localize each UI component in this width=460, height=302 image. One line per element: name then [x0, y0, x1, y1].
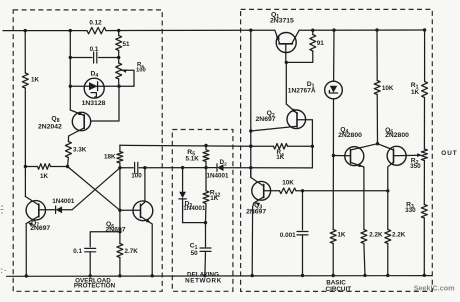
svg-text:91: 91	[317, 40, 325, 47]
transistor Q1 2N3715	[276, 33, 296, 53]
resistor 3.3K	[67, 136, 69, 142]
svg-text:1K: 1K	[31, 77, 40, 84]
wire sense column left	[69, 31, 71, 110]
overload protection box	[13, 10, 162, 291]
wire Q1 collector rail	[299, 29, 424, 31]
wire top rail input	[3, 30, 87, 32]
svg-text:2N697: 2N697	[106, 226, 126, 233]
resistor 2.2K right	[387, 191, 389, 230]
svg-text:PROTECTION: PROTECTION	[74, 282, 116, 289]
node X	[118, 166, 121, 169]
svg-text:2N697: 2N697	[256, 116, 276, 123]
wire left rail upper	[24, 31, 26, 73]
svg-text:100: 100	[136, 68, 147, 74]
wire 167 rail left	[145, 167, 217, 169]
svg-text:CIRCUIT: CIRCUIT	[326, 286, 352, 293]
scan specks	[1, 206, 7, 273]
svg-text:1N4001: 1N4001	[206, 173, 229, 180]
potentiometer R2 350	[421, 149, 427, 161]
svg-text:2.2K: 2.2K	[369, 232, 383, 239]
svg-text:18K: 18K	[104, 154, 116, 161]
transistor Q6	[133, 201, 153, 221]
resistor 1K left	[22, 73, 28, 88]
wire Q1 base to Q2 collector	[285, 62, 287, 104]
node Q6 collector	[143, 166, 146, 169]
capacitor 0.1 top	[70, 57, 92, 59]
wire left rail to node	[24, 88, 26, 197]
svg-text:2.2K: 2.2K	[392, 232, 406, 239]
ground rail	[7, 275, 432, 278]
resistor R12 1K	[205, 168, 207, 191]
svg-text:2N2800: 2N2800	[385, 132, 409, 139]
wire cross diagonal B to Q7 base	[72, 168, 120, 210]
svg-text:0.001: 0.001	[280, 232, 296, 239]
svg-text:0.1: 0.1	[73, 248, 82, 255]
resistor R5 5.1K	[205, 146, 207, 150]
wire diode to cross diagonal	[62, 209, 72, 211]
transistor Q7	[26, 201, 45, 220]
capacitor 0.001	[302, 191, 304, 230]
svg-text:2N2800: 2N2800	[338, 132, 362, 139]
diode D3 1N4001	[182, 168, 184, 192]
node rail x250	[250, 30, 252, 177]
resistor R4 1K	[251, 145, 274, 147]
wire cross diagonal A to Q6 base	[68, 167, 120, 211]
resistor 2.7K	[117, 244, 123, 258]
svg-text:0.1: 0.1	[90, 46, 99, 53]
resistor 51	[118, 31, 120, 36]
diode 1N4001 flip-flop	[56, 206, 63, 213]
wire 191 rail	[303, 190, 388, 192]
node left rail / 1K horizontal	[24, 165, 27, 168]
svg-text:1N4001: 1N4001	[52, 198, 75, 205]
svg-text:2N3715: 2N3715	[270, 18, 294, 25]
wire 145 rail	[120, 144, 251, 147]
svg-text:50: 50	[191, 250, 199, 257]
svg-text:1K: 1K	[411, 89, 420, 96]
diode D1 1N2767A	[333, 30, 335, 81]
svg-text:2: 2	[224, 162, 227, 168]
svg-text:5.1K: 5.1K	[186, 155, 200, 162]
svg-text:1K: 1K	[40, 173, 49, 180]
svg-text:350: 350	[410, 163, 421, 170]
resistor R1 1K	[424, 30, 426, 82]
wire Q7 emitter to ground	[25, 224, 27, 277]
delaying network box	[172, 130, 233, 292]
transistor Q4 2N2800	[345, 147, 364, 166]
svg-text:2N697: 2N697	[246, 209, 266, 216]
capacitor 0.1 bottom	[90, 232, 120, 247]
svg-text:100: 100	[131, 173, 142, 180]
resistor 1K bottom	[330, 230, 336, 244]
svg-text:3.3K: 3.3K	[73, 147, 87, 154]
wire tunnel diode node	[70, 85, 134, 87]
capacitor 100	[120, 167, 133, 169]
svg-text:2N2042: 2N2042	[38, 124, 62, 131]
tunnel diode D4 1N3128	[84, 78, 104, 98]
transistor Q2 2N697	[287, 110, 306, 129]
node input rail junctions	[24, 29, 27, 32]
resistor R3 330	[421, 205, 427, 219]
transistor Q5 2N2800	[387, 146, 406, 165]
svg-text:1K: 1K	[210, 195, 219, 202]
svg-text:SeekIC.com: SeekIC.com	[414, 284, 455, 293]
svg-text:1N2767A: 1N2767A	[288, 88, 316, 95]
resistor 18K	[119, 145, 121, 151]
transistor Q8 2N2042	[72, 112, 90, 130]
svg-text:1K: 1K	[276, 154, 285, 161]
resistor 10K mid	[280, 188, 297, 194]
resistor 0.12	[87, 27, 106, 33]
svg-text:330: 330	[405, 207, 416, 214]
node Y	[66, 165, 69, 168]
svg-text:10K: 10K	[382, 85, 394, 92]
svg-text:1K: 1K	[337, 232, 346, 239]
basic circuit box	[241, 9, 433, 291]
wire 167 rail right	[224, 167, 313, 169]
capacitor C1 50	[205, 223, 207, 247]
wire D3 R12 join	[183, 222, 206, 224]
svg-text:1N4001: 1N4001	[183, 205, 206, 212]
svg-text:0.12: 0.12	[89, 20, 102, 27]
wire Q6 base column	[119, 168, 121, 211]
svg-text:2.7K: 2.7K	[125, 248, 139, 255]
wire top rail to Q1 emitter	[106, 29, 275, 31]
svg-text:NETWORK: NETWORK	[185, 277, 222, 284]
resistor 91	[312, 30, 314, 34]
svg-text:2N697: 2N697	[30, 225, 50, 232]
wire Q8 base to D4 node	[91, 86, 119, 121]
diode D2 1N4001	[217, 164, 224, 171]
resistor 2.2K left	[363, 167, 365, 230]
transistor Q3 2N697	[252, 181, 271, 200]
svg-text:OUT: OUT	[441, 150, 457, 157]
svg-text:51: 51	[123, 41, 131, 48]
svg-text:1N3128: 1N3128	[82, 100, 106, 107]
resistor 10K top	[376, 30, 378, 81]
svg-text:10K: 10K	[282, 180, 294, 187]
potentiometer R6 100	[118, 58, 120, 64]
resistor 1K horizontal	[25, 166, 37, 168]
